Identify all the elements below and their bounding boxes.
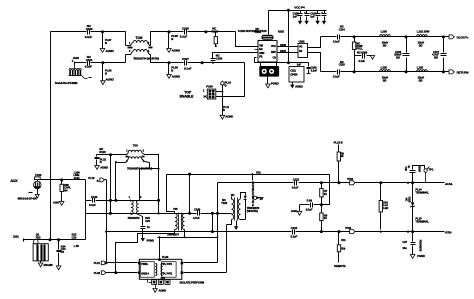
node [411,230,414,233]
svg-text:750342877: 750342877 [167,232,180,236]
node [405,70,408,73]
resistor R110 LED [379,183,388,230]
svg-text:BD: BD [383,79,387,83]
svg-text:PWRL: PWRL [141,263,148,266]
node [188,173,191,176]
transformer T105 [167,207,185,237]
ic X100 footprint [259,63,279,77]
capacitor C125 [300,199,322,212]
svg-text:C106: C106 [182,27,189,31]
svg-text:BD: BD [419,79,423,83]
svg-text:0.1uF: 0.1uF [292,185,299,189]
transformer T100 [126,36,159,60]
svg-text:880-2-2-2-07-424: 880-2-2-2-07-424 [18,197,38,201]
wire [216,91,223,93]
port PL21 [94,261,106,265]
capacitor C118 [355,50,373,63]
node [188,212,191,215]
resistor R106 [60,180,71,202]
label AUX [10,179,18,183]
wire [299,205,301,212]
svg-text:J100: J100 [73,56,80,60]
svg-text:0.1uF: 0.1uF [311,68,318,72]
wire [116,230,175,273]
svg-text:GNDI A: GNDI A [141,273,149,276]
node [109,199,112,202]
wire [308,53,321,72]
label R131 [256,171,261,175]
svg-text:L102: L102 [381,65,388,69]
node [407,231,409,233]
capacitor VCC 3 [310,11,320,21]
node [215,45,217,47]
svg-text:C120: C120 [91,195,98,199]
resistor R111 remote [334,232,346,269]
svg-text:750343373: 750343373 [128,216,140,220]
svg-text:TERMINAL: TERMINAL [415,220,429,224]
svg-text:C114: C114 [339,27,346,31]
svg-text:0.1uF: 0.1uF [85,65,93,69]
svg-text:B: B [105,72,107,76]
wire [97,154,125,156]
svg-text:VCC P4: VCC P4 [294,5,305,9]
svg-text:TP1: TP1 [428,168,433,172]
wire [184,213,186,215]
wire aux drop [85,180,87,240]
node [109,212,112,215]
transistor Q100 [33,239,48,262]
zener D101 [404,197,414,208]
svg-text:PL19: PL19 [88,176,95,180]
svg-text:AGN: AGN [53,200,59,204]
ground [95,166,108,170]
wire output- rail [321,71,449,73]
node [60,178,63,181]
node [109,153,112,156]
svg-text:AUX: AUX [10,179,18,183]
svg-text:C107: C107 [182,57,189,61]
wire [145,155,159,214]
wire [184,272,227,274]
svg-text:0.1uF: 0.1uF [291,234,298,238]
svg-text:PULL: PULL [356,47,363,51]
shunt regulator U103 [251,175,255,208]
ground AGND [291,209,302,215]
resistor R100 [212,26,219,46]
wire [130,200,132,202]
resistor network R115 [148,278,171,289]
ic U101 [298,39,308,57]
svg-text:L103: L103 [417,65,424,69]
wire output+ rail [321,36,449,38]
svg-text:AGND: AGND [100,166,108,170]
wire [255,58,309,63]
wire [91,32,126,46]
wire [216,63,245,97]
node [442,70,445,73]
label B+ [445,182,453,186]
label RTN [445,231,452,235]
port DCOUT- [449,70,469,74]
ground PGND [322,21,326,25]
svg-text:750313734 (WURTH): 750313734 (WURTH) [133,57,159,61]
wire [151,55,169,63]
capacitor C117 [432,37,446,72]
svg-text:0.1uF: 0.1uF [333,74,340,78]
svg-text:1n: 1n [147,225,150,229]
wire [91,55,126,63]
node [201,61,204,64]
inductor L102 [380,65,391,82]
ground MOV [35,195,39,198]
node [101,61,104,64]
wire top input rail [51,31,87,33]
svg-text:AGND: AGND [106,78,114,82]
node [405,35,408,38]
node [114,199,117,202]
svg-text:AGND: AGND [106,49,114,53]
svg-text:NC: NC [404,198,407,202]
svg-text:U101: U101 [299,39,306,43]
capacitor C120 [89,195,98,207]
wire [292,83,294,85]
svg-text:C115: C115 [339,63,346,67]
wire [412,183,414,232]
svg-text:T100: T100 [136,36,143,40]
capacitor C100 [85,24,93,39]
ground AGND [167,49,180,53]
node [353,35,356,38]
node [221,91,223,93]
svg-text:BD: BD [419,44,423,48]
svg-text:VO: VO [299,46,303,49]
svg-text:R 09: R 09 [307,199,313,203]
node [380,231,382,233]
wire [188,32,257,47]
svg-text:C100: C100 [86,27,93,31]
wire [74,65,76,69]
svg-text:B: B [97,179,99,183]
svg-text:PL20: PL20 [162,255,169,259]
node [287,9,290,12]
capacitor C101 [85,55,93,69]
svg-text:R12: R12 [36,235,41,239]
wire [223,92,230,116]
node [411,181,414,184]
svg-text:+RAIL: +RAIL [445,182,453,186]
diode D100 [241,193,247,220]
svg-text:L101 15W: L101 15W [417,29,430,33]
svg-text:L 05: L 05 [74,244,80,248]
wire [255,47,259,53]
ground [38,263,53,267]
svg-text:0.1uF: 0.1uF [85,35,93,39]
svg-text:AGND: AGND [295,84,303,88]
svg-text:R11: R11 [341,238,346,242]
ground [53,200,64,205]
port PL08 [103,63,112,81]
ground AGND [153,289,166,293]
node [49,238,52,241]
wire aux line [41,170,86,179]
svg-text:GND: GND [259,52,264,55]
svg-text:B: B [171,68,173,72]
wire [140,163,150,169]
wire FB net [278,11,289,63]
capacitor VCC 2 [304,10,310,20]
wire [308,37,321,48]
ground PGND [304,21,308,25]
svg-text:R101: R101 [255,30,262,34]
svg-text:0.1uF: 0.1uF [333,39,340,43]
svg-text:BD: BD [396,55,400,59]
node [211,212,214,215]
wire [231,197,233,200]
svg-text:T03: T03 [133,143,138,147]
node [159,236,161,238]
port PL06 [169,63,179,75]
resistor R105 pull [352,37,363,72]
fuse F100 [35,173,42,181]
ground AGND [101,78,114,85]
svg-text:RETURN: RETURN [457,70,469,74]
svg-text:AGN: AGN [291,209,297,213]
ground AGND [100,49,113,53]
ground PGND [315,21,319,25]
node [217,236,219,238]
node [168,30,171,33]
svg-text:0.1uF: 0.1uF [89,203,96,207]
capacitor VCC 4 [321,10,326,20]
svg-text:FB: FB [299,50,302,53]
svg-text:1uF: 1uF [293,15,298,19]
svg-text:C111: C111 [290,68,296,72]
svg-text:BD: BD [383,44,387,48]
svg-text:VIN: VIN [259,45,263,48]
svg-text:NC C118: NC C118 [357,50,368,54]
svg-text:DCOUT+: DCOUT+ [457,35,469,39]
wire [167,175,175,214]
resistor R109 [337,145,344,183]
node [114,271,117,274]
port PL05 [169,32,179,49]
svg-text:R115: R115 [407,197,410,203]
port TP102 [345,226,355,234]
svg-text:R100: R100 [212,29,219,33]
ground [231,193,238,230]
node [287,61,290,64]
svg-text:B: B [225,83,227,87]
svg-text:T102: T102 [221,201,227,205]
capacitor C127 [402,232,421,255]
svg-text:PL13 B: PL13 B [334,141,343,145]
port PL10 [221,81,232,92]
svg-text:R31: R31 [256,171,261,175]
svg-text:5V: 5V [260,197,263,201]
svg-text:2mH: 2mH [74,176,80,180]
wire feedback bus [167,174,330,176]
capacitor C109 [307,63,318,74]
ground [141,238,154,242]
svg-text:BD: BD [434,55,438,59]
svg-text:PGND: PGND [417,254,425,258]
svg-text:240-206: 240-206 [44,263,54,267]
wire input rail 2 [75,62,87,64]
wire [277,43,299,53]
ic U100 [238,29,277,62]
label PL15 [415,217,429,224]
svg-text:AGND: AGND [225,115,233,119]
svg-text:F100: F100 [35,173,41,177]
pin mark [204,96,207,98]
svg-text:B: B [171,37,173,41]
wire [169,31,184,33]
svg-text:J101: J101 [13,234,19,238]
ground PGND [410,254,425,258]
svg-text:C27: C27 [402,240,407,244]
svg-text:R102: R102 [278,30,285,34]
node [251,173,253,175]
capacitor C116 [394,37,409,72]
capacitor C106 [180,27,189,39]
svg-text:P100: P100 [206,85,213,89]
node [320,203,323,206]
wire B+ bus [218,182,445,184]
svg-text:PL21: PL21 [94,261,101,265]
svg-text:0.1uF: 0.1uF [180,34,188,38]
svg-text:ISOLATE PERFORM: ISOLATE PERFORM [180,280,205,284]
snubber R124 C124 [139,215,151,239]
svg-text:0.1uF: 0.1uF [306,207,313,211]
transformer T104 [128,197,143,220]
node [320,230,323,233]
wire [226,225,228,273]
svg-text:NCP431ACSN 5Z G: NCP431ACSN 5Z G [251,182,255,208]
wire [86,200,159,202]
wire left return bus [50,32,52,240]
node [158,168,160,170]
node [442,35,445,38]
node [157,199,160,202]
svg-text:DRV: DRV [271,51,276,54]
svg-text:CS: CS [273,57,277,60]
label TOP ENABLE [180,90,194,98]
ground [56,266,61,270]
transformer T103 [125,143,153,170]
wire [217,183,219,263]
inductor L100 [380,29,391,47]
svg-text:FB: FB [259,55,262,58]
port PL07 [103,32,112,49]
svg-text:U100 NCP1060AP100: U100 NCP1060AP100 [238,29,267,33]
node [216,212,219,215]
wire [267,77,269,85]
svg-text:B: B [100,160,102,164]
ground PGND [266,81,279,88]
node [105,261,108,264]
svg-text:4.7nF: 4.7nF [193,216,200,220]
node [353,70,356,73]
ground [370,56,374,60]
svg-text:R15: R15 [161,278,166,281]
svg-text:ENABLE: ENABLE [180,94,194,98]
label PL14 [415,187,429,194]
node [204,30,207,33]
node [338,181,341,184]
wire [116,162,126,164]
capacitor C126 testpoint [404,165,434,182]
wire VCC rail [269,10,327,12]
capacitor C108 [211,53,257,63]
wire B+ sense [105,180,107,263]
svg-text:C122: C122 [293,177,300,181]
svg-text:AGND: AGND [172,49,180,53]
wire [110,155,112,214]
node [105,231,107,233]
svg-text:B: B [105,41,107,45]
wire [86,213,232,215]
svg-text:10u: 10u [402,246,407,250]
svg-text:NC: NC [231,193,235,197]
resistor R107 [320,183,328,205]
svg-text:C13: C13 [72,235,77,239]
capacitor C121 [193,207,201,220]
wire bottom input [13,233,86,249]
connector P100 [203,85,216,99]
wire [106,272,138,274]
varistor MOV [18,181,41,201]
wire [140,168,159,170]
node [338,230,341,233]
capacitor C128 [57,240,66,266]
node [379,181,382,184]
wire [189,175,191,214]
svg-text:L100: L100 [381,29,388,33]
capacitor C122 [292,177,300,189]
wire [139,169,141,201]
ferrite bead FB100 [255,11,274,40]
svg-text:C123: C123 [291,226,298,230]
svg-text:C24: C24 [145,219,150,223]
wire [188,62,245,64]
svg-text:PGND: PGND [147,238,154,242]
label PLB [334,141,343,145]
svg-text:T05: T05 [173,207,178,211]
node [184,236,186,238]
node [212,62,214,64]
port PL22 [94,271,106,275]
wire [115,163,117,201]
svg-text:IPL P4T1: IPL P4T1 [163,263,173,266]
port DCOUT+ [449,35,469,39]
svg-text:TERMINAL: TERMINAL [415,190,429,194]
svg-text:OPEN: OPEN [290,72,297,76]
svg-text:EN: EN [259,48,263,51]
node [168,61,171,64]
node [158,212,160,214]
wire return bus [107,231,445,233]
wire [169,62,184,64]
svg-text:B: B [223,108,225,112]
svg-text:R103: R103 [280,43,286,47]
port TP101 [347,177,355,185]
ic U102 box [289,63,304,82]
capacitor VCC 1 [293,11,303,21]
node [407,182,409,184]
port PL19 [88,176,104,183]
ground PGND [298,21,302,25]
svg-text:51k: 51k [341,247,346,251]
